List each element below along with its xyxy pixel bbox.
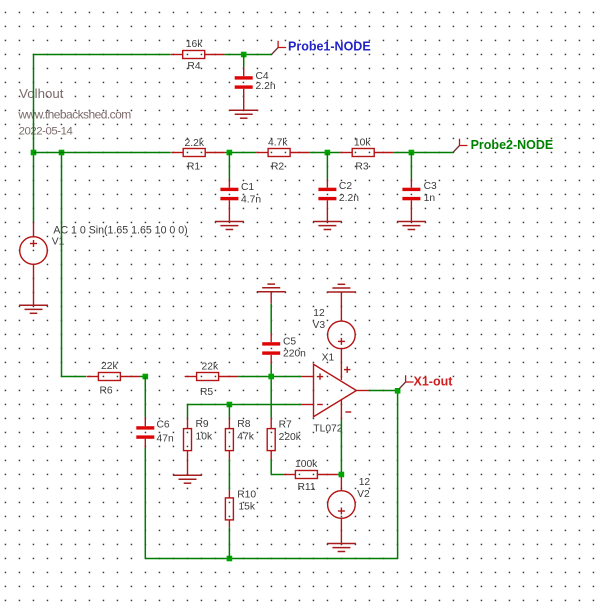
- capacitor C3: [410, 179, 412, 210]
- junction node R2/C2: [325, 150, 331, 156]
- wire: [271, 474, 283, 476]
- wire (C3 to ground): [410, 210, 412, 222]
- svg-text:2.2n: 2.2n: [339, 193, 359, 204]
- voltage source V2: [328, 491, 356, 519]
- svg-text:22k: 22k: [101, 361, 118, 372]
- wire: [33, 153, 35, 222]
- ground (C3): [397, 222, 426, 230]
- svg-text:X1: X1: [322, 352, 335, 363]
- ground (R9): [173, 475, 202, 483]
- svg-text:16k: 16k: [186, 39, 203, 50]
- wire (C2 to ground): [326, 210, 328, 222]
- wire (V2 to ground): [340, 518, 342, 543]
- svg-text:R10: R10: [237, 490, 256, 501]
- wire (C1 to ground): [228, 210, 230, 222]
- ground (V2): [327, 544, 356, 552]
- wire (rail up to output): [397, 391, 399, 559]
- svg-text:220n: 220n: [283, 348, 306, 359]
- svg-text:R9: R9: [196, 419, 209, 430]
- wire: [33, 55, 35, 153]
- capacitor C1: [228, 179, 230, 210]
- svg-text:C6: C6: [157, 420, 170, 431]
- svg-text:R1: R1: [187, 162, 200, 173]
- svg-text:100k: 100k: [295, 459, 318, 470]
- svg-text:V1: V1: [52, 237, 65, 248]
- svg-text:Probe1-NODE: Probe1-NODE: [288, 40, 371, 54]
- voltage source V3: [328, 321, 356, 349]
- junction node X1-out node: [395, 388, 401, 394]
- svg-text:X1-out: X1-out: [414, 375, 454, 389]
- junction node R4/C4: [241, 52, 247, 58]
- resistor R7: [267, 418, 275, 459]
- svg-text:C2: C2: [339, 181, 352, 192]
- svg-text:1n: 1n: [424, 193, 436, 204]
- junction node R8 node: [227, 402, 233, 408]
- junction node R6/R5/C6: [143, 374, 149, 380]
- svg-text:R3: R3: [355, 162, 368, 173]
- wire: [340, 420, 342, 472]
- junction node V1 branch: [31, 150, 37, 156]
- wire: [228, 459, 230, 490]
- op-amp V- pin: [340, 400, 342, 420]
- ground (C2): [313, 222, 342, 230]
- wire: [337, 474, 341, 476]
- svg-text:2.2k: 2.2k: [185, 138, 205, 149]
- svg-text:Probe2-NODE: Probe2-NODE: [471, 138, 554, 152]
- wire: [62, 376, 87, 378]
- wire: [61, 153, 63, 377]
- op-amp X1 TL072: [314, 364, 357, 416]
- junction node +input node: [268, 374, 274, 380]
- ground (C1): [215, 222, 244, 230]
- svg-text:C3: C3: [424, 181, 437, 192]
- resistor R8: [225, 418, 233, 460]
- svg-text:V2: V2: [357, 489, 370, 500]
- ground (C4): [229, 110, 258, 118]
- svg-text:C5: C5: [283, 336, 296, 347]
- resistor R9: [184, 418, 192, 451]
- wire: [144, 377, 146, 418]
- svg-text:4.7k: 4.7k: [268, 138, 288, 149]
- wire (junction to V2): [340, 477, 342, 491]
- resistor R1: [171, 149, 225, 157]
- wire: [140, 376, 145, 378]
- svg-text:12: 12: [359, 477, 371, 488]
- op-amp V+ pin: [340, 349, 342, 380]
- svg-text:R4: R4: [187, 61, 200, 72]
- svg-text:15k: 15k: [238, 501, 255, 512]
- resistor R11: [283, 471, 337, 479]
- wire: [270, 304, 272, 333]
- svg-text:C1: C1: [241, 182, 254, 193]
- wire (V1 top lead): [33, 222, 35, 237]
- wire: [228, 527, 230, 558]
- ground (V1): [19, 305, 48, 313]
- wire: [270, 459, 272, 475]
- svg-text:47k: 47k: [237, 432, 254, 443]
- svg-text:2022-05-14: 2022-05-14: [19, 126, 73, 138]
- ground above V3 (inverted): [327, 284, 356, 292]
- resistor R10: [225, 490, 233, 527]
- capacitor C6: [144, 417, 146, 448]
- svg-text:www.thebackshed.com: www.thebackshed.com: [17, 108, 131, 122]
- svg-text:47n: 47n: [157, 434, 174, 445]
- wire (bottom rail): [145, 558, 397, 560]
- ground above C5 (inverted): [257, 284, 286, 292]
- wire: [238, 376, 268, 378]
- wire: [369, 390, 398, 392]
- wire (ground to V3): [340, 292, 342, 321]
- probe tick X1-out: [399, 382, 406, 389]
- wire: [188, 404, 302, 406]
- svg-text:TL072: TL072: [313, 424, 342, 435]
- svg-text:AC 1 0 Sin(1.65 1.65 10 0 0): AC 1 0 Sin(1.65 1.65 10 0 0): [53, 225, 187, 237]
- svg-text:R5: R5: [200, 387, 213, 398]
- wire: [410, 153, 412, 179]
- wire: [270, 364, 272, 374]
- wire: [34, 152, 171, 154]
- resistor R2: [256, 149, 310, 157]
- wire (C4 to ground): [243, 98, 245, 110]
- op-amp + input pin: [302, 376, 314, 378]
- svg-text:4.7n: 4.7n: [241, 195, 261, 206]
- wire: [34, 54, 171, 56]
- wire: [187, 405, 189, 418]
- wire (V1 bottom lead): [33, 264, 35, 305]
- probe tick Probe1: [272, 48, 279, 55]
- resistor R4: [171, 51, 225, 59]
- resistor R5: [185, 373, 239, 381]
- wire: [270, 379, 272, 417]
- svg-text:R6: R6: [100, 386, 113, 397]
- capacitor C5: [270, 333, 272, 364]
- svg-text:10k: 10k: [196, 432, 213, 443]
- svg-text:R11: R11: [298, 482, 316, 493]
- svg-text:R8: R8: [237, 419, 250, 430]
- wire (R9 to ground): [187, 451, 189, 476]
- junction node R11/V2/V- pin: [339, 472, 345, 478]
- svg-text:R2: R2: [271, 162, 284, 173]
- voltage source V1: [20, 237, 48, 265]
- junction node R10/rail: [227, 556, 233, 562]
- svg-text:220k: 220k: [279, 432, 302, 443]
- svg-text:R7: R7: [279, 419, 292, 430]
- svg-text:10k: 10k: [354, 138, 371, 149]
- capacitor C4: [243, 67, 245, 98]
- junction node R3/C3: [409, 150, 415, 156]
- op-amp output pin: [356, 390, 368, 392]
- resistor R6: [86, 373, 140, 381]
- wire: [228, 153, 230, 179]
- svg-text:12: 12: [313, 308, 325, 319]
- wire (ground stem to C5): [270, 292, 272, 304]
- wire: [144, 448, 146, 559]
- wire: [228, 405, 230, 418]
- capacitor C2: [326, 179, 328, 210]
- op-amp - input pin: [302, 404, 314, 406]
- wire: [326, 153, 328, 179]
- wire: [310, 152, 341, 154]
- wire: [224, 54, 271, 56]
- svg-text:V3: V3: [313, 320, 326, 331]
- junction node R1/C1: [227, 150, 233, 156]
- wire: [225, 152, 256, 154]
- wire (to op-amp + input): [274, 376, 302, 378]
- svg-text:2.2n: 2.2n: [256, 81, 276, 92]
- junction node R6 branch: [59, 150, 65, 156]
- probe tick Probe2: [453, 146, 460, 153]
- resistor R3: [340, 149, 394, 157]
- svg-text:Volhout: Volhout: [19, 86, 64, 101]
- wire: [394, 152, 453, 154]
- svg-text:22k: 22k: [202, 362, 219, 373]
- wire: [243, 55, 245, 68]
